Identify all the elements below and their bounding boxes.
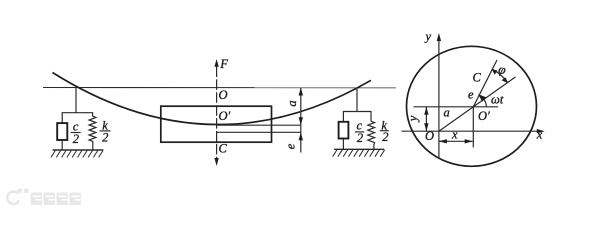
svg-text:O: O bbox=[219, 88, 228, 102]
svg-text:e: e bbox=[284, 143, 298, 149]
line O O' extended (radius a direction) bbox=[439, 77, 516, 131]
svg-text:e: e bbox=[468, 88, 474, 102]
dimension y line bbox=[425, 107, 427, 131]
force F arrowhead (up) bbox=[214, 59, 218, 67]
weight arrowhead (down) bbox=[214, 158, 218, 166]
right damper c/2 bbox=[339, 122, 349, 139]
angle phi arc bbox=[492, 69, 507, 82]
right spring k/2 bbox=[368, 121, 375, 149]
line O' C extended bbox=[473, 60, 497, 107]
svg-text:y: y bbox=[406, 115, 420, 123]
O' level extension line bbox=[217, 124, 301, 126]
svg-text:2: 2 bbox=[357, 131, 363, 145]
svg-text:O: O bbox=[425, 129, 434, 143]
y axis bbox=[438, 40, 440, 159]
svg-text:x: x bbox=[451, 127, 458, 141]
svg-text:2: 2 bbox=[102, 131, 108, 145]
svg-text:O′: O′ bbox=[478, 109, 490, 123]
left bracket bbox=[62, 113, 92, 123]
C level extension line bbox=[217, 131, 301, 133]
svg-text:ωt: ωt bbox=[491, 93, 504, 107]
svg-text:2: 2 bbox=[382, 130, 388, 144]
svg-text:φ: φ bbox=[497, 61, 508, 77]
svg-text:y: y bbox=[424, 30, 432, 44]
fraction bars bbox=[71, 131, 389, 133]
datum line (undeflected beam line) bbox=[43, 87, 396, 89]
O' horizontal reference line bbox=[414, 106, 499, 108]
right ground bbox=[334, 148, 384, 150]
watermark text blocks bbox=[31, 193, 43, 206]
dimension a line bbox=[300, 88, 302, 126]
beam curve (deflected beam) bbox=[53, 73, 372, 125]
machine body rectangle bbox=[161, 106, 272, 142]
svg-text:2: 2 bbox=[73, 132, 79, 146]
svg-text:a: a bbox=[285, 100, 299, 106]
left hanger wire bbox=[75, 88, 77, 113]
O' vertical extension line bbox=[472, 107, 474, 148]
svg-text:C: C bbox=[473, 71, 482, 85]
svg-text:O′: O′ bbox=[219, 109, 231, 123]
dimension e line bbox=[300, 125, 302, 152]
left spring k/2 bbox=[89, 116, 96, 150]
left damper c/2 bbox=[57, 123, 67, 140]
right hanger wire bbox=[356, 88, 358, 112]
x axis bbox=[402, 130, 539, 132]
left ground bbox=[53, 149, 104, 151]
svg-text:a: a bbox=[444, 106, 450, 120]
angle wt arc bbox=[479, 95, 486, 107]
svg-text:c: c bbox=[73, 119, 79, 133]
rotor circle (right figure) bbox=[407, 46, 537, 166]
svg-text:F: F bbox=[219, 57, 228, 71]
right bracket bbox=[343, 112, 371, 122]
center vertical line through O O' C bbox=[216, 67, 218, 160]
dimension x line bbox=[439, 140, 473, 142]
svg-text:x: x bbox=[536, 128, 543, 142]
watermark logo bbox=[7, 192, 19, 204]
svg-text:C: C bbox=[219, 142, 228, 156]
